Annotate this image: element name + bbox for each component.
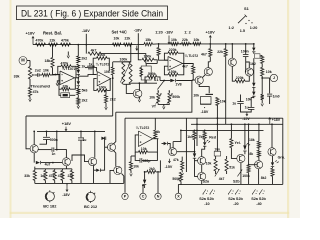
- wire cap to bottom: [80, 140, 82, 183]
- wire Q16 to right: [177, 151, 195, 153]
- wire: [160, 80, 164, 82]
- diode D7: [36, 161, 40, 164]
- wire third rail: [181, 129, 264, 131]
- diode D8: [96, 169, 100, 172]
- ground S1: [163, 107, 166, 109]
- svg-text:1:20: 1:20: [250, 26, 258, 30]
- svg-text:-18V: -18V: [165, 30, 174, 35]
- trimmer box: [61, 93, 70, 98]
- svg-text:2k2: 2k2: [81, 57, 87, 61]
- svg-text:S1: S1: [244, 6, 250, 11]
- wire to 100k: [138, 44, 141, 60]
- ground: [105, 103, 107, 107]
- trimmer 100k pair: [130, 45, 132, 62]
- wire box top / upper rail: [125, 117, 283, 119]
- svg-text:500k: 500k: [172, 95, 180, 99]
- wire rail A extension: [78, 44, 137, 46]
- svg-text:10k: 10k: [104, 70, 110, 74]
- svg-text:4u7: 4u7: [45, 163, 51, 167]
- svg-text:1m0: 1m0: [273, 95, 280, 99]
- transistor Q6: [30, 145, 38, 153]
- svg-text:1.5: 1.5: [240, 29, 245, 33]
- svg-text:2u2: 2u2: [35, 69, 41, 73]
- svg-text:-18V: -18V: [62, 193, 70, 197]
- wire Q6 collector to rail: [33, 131, 35, 144]
- node: [130, 44, 132, 46]
- wire Q3-base virtual earth bus: [116, 81, 192, 113]
- svg-text:10k: 10k: [43, 69, 49, 73]
- ground at op-amp1 +input: [57, 81, 60, 83]
- svg-text:-15V: -15V: [242, 117, 250, 121]
- resistor 4k7 collector load: [209, 44, 211, 49]
- svg-text:1:20: 1:20: [155, 30, 163, 34]
- svg-text:10k: 10k: [193, 94, 199, 98]
- diode at Q16 base: [162, 143, 164, 145]
- resistor above Yel: [230, 124, 232, 138]
- wire rail A: [33, 44, 79, 46]
- svg-text:4k7: 4k7: [91, 48, 97, 52]
- diode D9: [144, 172, 146, 180]
- svg-text:N: N: [157, 195, 160, 199]
- svg-text:M: M: [21, 58, 25, 63]
- wire Q8 base: [72, 155, 89, 162]
- svg-text:S2a S2b: S2a S2b: [251, 197, 266, 201]
- svg-text:18k: 18k: [249, 138, 255, 142]
- wire to FET gate: [126, 84, 133, 93]
- wire: [52, 45, 54, 58]
- svg-text:Threshold: Threshold: [31, 84, 51, 89]
- svg-text:10k: 10k: [149, 96, 155, 100]
- svg-text:+18V: +18V: [26, 31, 36, 36]
- transistor Q9: [107, 143, 115, 151]
- svg-text:100n: 100n: [241, 50, 249, 54]
- transistor Q14: [255, 161, 263, 169]
- title box: [17, 6, 168, 20]
- svg-text:Rest. Bal.: Rest. Bal.: [43, 31, 62, 36]
- ground chain: [77, 104, 79, 106]
- wire +18V rail mid: [37, 130, 105, 132]
- svg-text:DL 231 ( Fig. 6 ) Expander: DL 231 ( Fig. 6 ) Expander Side Chain: [21, 8, 163, 19]
- svg-text:1u: 1u: [83, 138, 87, 142]
- svg-text:S2b: S2b: [233, 180, 240, 184]
- svg-text:100k: 100k: [99, 85, 107, 89]
- wire rail B: [157, 43, 254, 45]
- svg-text:10k: 10k: [220, 100, 226, 104]
- svg-text:C: C: [142, 195, 145, 199]
- capacitor 500n: [46, 131, 48, 136]
- diode 1V8: [164, 80, 170, 82]
- svg-text:¼ TL072: ¼ TL072: [136, 126, 150, 130]
- svg-text:-18V: -18V: [82, 29, 90, 33]
- capacitor 1n: [51, 147, 53, 151]
- svg-text:-18V: -18V: [201, 110, 209, 114]
- svg-text:Set +4C: Set +4C: [112, 29, 127, 34]
- svg-text:1k5: 1k5: [187, 135, 193, 139]
- wire op output: [153, 138, 159, 140]
- svg-text:22k: 22k: [125, 37, 131, 41]
- wire Q8 collector to rail: [94, 131, 96, 157]
- wire 1k5 to base: [194, 140, 196, 154]
- diode chain column: [77, 45, 79, 56]
- switch S1 lever: [157, 81, 164, 90]
- wire caps bottom: [241, 104, 252, 112]
- svg-text:470k: 470k: [61, 39, 69, 43]
- svg-text:1n: 1n: [52, 152, 56, 156]
- FET Q1 gain control: [133, 89, 142, 98]
- svg-text:51k: 51k: [229, 165, 235, 169]
- capacitor 680p: [139, 158, 141, 163]
- wire Q14 base from 100k: [248, 164, 250, 166]
- svg-text:Grn.: Grn.: [278, 156, 285, 160]
- resistor 2k2 lower: [77, 95, 79, 98]
- svg-text:Red: Red: [209, 135, 216, 139]
- wire Q7 emitter: [65, 166, 67, 169]
- transistor Q7: [62, 158, 70, 166]
- svg-text:1: 2: 1: 2: [184, 30, 191, 34]
- svg-text:4k7: 4k7: [182, 65, 188, 69]
- svg-text:33k: 33k: [14, 74, 20, 78]
- resistor to ground under J: [261, 78, 263, 94]
- wire box left edge: [124, 118, 126, 193]
- svg-text:220k: 220k: [169, 48, 177, 52]
- transistor Q15: [268, 148, 276, 156]
- capacitor 1m0: [253, 96, 255, 98]
- wire: [27, 60, 30, 62]
- svg-text:8k: 8k: [249, 152, 253, 156]
- svg-text:8k2: 8k2: [261, 176, 267, 180]
- resistor 2k2 to ground: [104, 90, 107, 94]
- small box: [255, 54, 260, 58]
- svg-text:47k: 47k: [33, 90, 39, 94]
- svg-text:BC 182: BC 182: [43, 203, 57, 208]
- svg-text:10k: 10k: [266, 70, 272, 74]
- svg-text:22k: 22k: [217, 50, 223, 54]
- wire Q2 collector: [208, 62, 210, 68]
- svg-text:1u: 1u: [232, 101, 236, 105]
- power -18V arrow into rail: [136, 46, 138, 51]
- svg-text:5k6: 5k6: [82, 89, 88, 93]
- svg-text:150k: 150k: [169, 70, 177, 74]
- wire verticals: [185, 118, 187, 172]
- svg-text:22k: 22k: [50, 39, 56, 43]
- wire diode to Q7 base: [41, 162, 63, 164]
- svg-text:-10: -10: [204, 202, 209, 206]
- svg-text:S2a S2b: S2a S2b: [228, 197, 243, 201]
- transistor Q5: [245, 68, 253, 76]
- svg-text:+18V: +18V: [206, 29, 216, 34]
- svg-text:10k: 10k: [246, 98, 252, 102]
- wire 180.9 down to Q16 collector: [173, 130, 181, 141]
- wire Q2-Q3: [202, 74, 205, 77]
- svg-text:18k: 18k: [45, 59, 51, 63]
- svg-text:J: J: [273, 75, 275, 80]
- svg-text:+18V: +18V: [62, 121, 72, 126]
- connector M: [19, 57, 27, 65]
- wire Q6 emitter: [33, 153, 35, 163]
- connector X: [177, 184, 179, 193]
- wires Q9/Q10 connections: [100, 137, 104, 170]
- svg-text:1k2: 1k2: [250, 62, 256, 66]
- wire to J: [261, 76, 263, 78]
- resistor leg under rail B: [158, 44, 160, 48]
- svg-text:47k: 47k: [173, 158, 179, 162]
- svg-text:10k: 10k: [133, 165, 139, 169]
- wire Q16 collector up: [172, 142, 174, 148]
- transistor pinout BC212: [86, 192, 95, 201]
- svg-text:-20: -20: [233, 202, 238, 206]
- connector C: [142, 186, 144, 193]
- wire 1n to Q7 collector: [55, 150, 67, 158]
- wire op-amp2 output: [183, 64, 194, 66]
- svg-text:S2a: S2a: [203, 180, 210, 184]
- diode D5: [253, 58, 255, 83]
- node S1: [163, 80, 165, 82]
- svg-text:Yel.: Yel.: [235, 141, 241, 145]
- wire FET drain: [138, 83, 140, 90]
- svg-text:15k: 15k: [145, 38, 151, 42]
- connector J: [270, 74, 277, 81]
- svg-text:1:2: 1:2: [229, 26, 234, 30]
- transistor Q13: [237, 154, 245, 162]
- potentiometer 10k leg: [157, 91, 159, 93]
- switch contact group 1: [203, 189, 206, 193]
- wire Q3 emitter to cap: [199, 84, 209, 93]
- svg-text:+18V: +18V: [272, 118, 281, 122]
- svg-text:-15V: -15V: [165, 165, 173, 169]
- svg-text:33k: 33k: [63, 84, 69, 88]
- capacitor 1u mid: [80, 131, 82, 137]
- svg-text:500k: 500k: [148, 72, 156, 76]
- switch S2b lever: [237, 170, 242, 177]
- power -15V: [168, 159, 170, 163]
- svg-text:22k: 22k: [182, 38, 188, 42]
- wire drain rail to S1: [131, 82, 158, 84]
- box component: [141, 66, 151, 80]
- transistor Q11: [198, 157, 206, 165]
- svg-text:33k: 33k: [24, 174, 30, 178]
- svg-text:4k7: 4k7: [201, 52, 207, 56]
- transistor Q8: [89, 158, 97, 166]
- power -18V bottom: [66, 186, 68, 192]
- node chain-output: [77, 77, 79, 79]
- wire legs join: [158, 103, 169, 104]
- transistor Q16: [169, 148, 177, 156]
- wire left drop: [25, 116, 27, 149]
- resistor 4k7 branch: [85, 45, 87, 54]
- wire right bus: [282, 118, 284, 184]
- svg-text:2k2: 2k2: [82, 98, 88, 102]
- node rest-bal wiper: [52, 44, 54, 46]
- wire to op-amp2: [75, 77, 79, 79]
- resistor 47k: [29, 79, 31, 88]
- capacitor 10n box: [214, 151, 220, 156]
- connector P: [122, 193, 128, 199]
- svg-text:-18V: -18V: [134, 29, 142, 33]
- svg-text:10k: 10k: [114, 37, 120, 41]
- ground stub: [67, 52, 69, 56]
- transistor Q4: [228, 58, 236, 66]
- svg-text:BC 212: BC 212: [84, 204, 98, 209]
- transistor pinout BC182: [45, 192, 54, 201]
- wire Q15 collector: [271, 124, 273, 148]
- potentiometer 500k leg: [168, 91, 170, 93]
- wire vertical 197: [196, 118, 198, 146]
- switch S2a lever: [215, 169, 220, 176]
- svg-text:10k: 10k: [194, 38, 200, 42]
- connector N: [157, 185, 159, 193]
- diode at 104.6: [101, 137, 105, 140]
- wire rail stub: [56, 131, 58, 149]
- transistor Q12: [198, 172, 206, 180]
- svg-text:10k: 10k: [171, 38, 177, 42]
- wire: [50, 74, 60, 76]
- power -15V mid: [246, 112, 248, 116]
- svg-text:S2a S2b: S2a S2b: [199, 197, 214, 201]
- svg-text:100k: 100k: [120, 57, 128, 61]
- wire right rail lower: [191, 123, 283, 125]
- diode D10: [193, 153, 196, 157]
- diode top right: [253, 44, 255, 48]
- svg-text:1k: 1k: [81, 64, 85, 68]
- wire row top rail: [35, 168, 72, 170]
- wire diode to base: [176, 79, 195, 82]
- svg-text:100k: 100k: [144, 55, 152, 59]
- svg-text:¼ TL072: ¼ TL072: [185, 54, 199, 58]
- diode D2: [77, 78, 79, 81]
- wire Q5 collector: [246, 62, 250, 68]
- wire to bottom rail: [93, 170, 95, 183]
- wire bottom right rail: [197, 183, 282, 185]
- transistor Q10: [114, 166, 122, 174]
- wire Q6 to 1n cap: [38, 149, 52, 151]
- wire row bottom rail: [35, 182, 124, 184]
- svg-text:470k: 470k: [36, 39, 44, 43]
- wire output node down to bus: [112, 75, 114, 116]
- wire 500n to Q6 area: [40, 140, 47, 145]
- switch contact group 2: [229, 189, 232, 193]
- diode D1: [77, 69, 79, 70]
- wire box to drain wire: [145, 80, 147, 83]
- resistor 5k6: [77, 86, 79, 89]
- svg-text:¼ TL072: ¼ TL072: [96, 63, 110, 67]
- switch contact group 3: [253, 189, 256, 193]
- ground threshold: [29, 97, 31, 100]
- svg-text:10k: 10k: [206, 162, 212, 166]
- wire long rail: [26, 115, 113, 117]
- svg-text:1V8: 1V8: [175, 83, 181, 87]
- diode D6: [253, 87, 255, 91]
- transistor Q3: [195, 76, 203, 84]
- svg-text:220k: 220k: [236, 76, 244, 80]
- svg-text:-40: -40: [256, 202, 261, 206]
- ground FET source: [138, 97, 140, 100]
- transistor Q2: [204, 68, 212, 76]
- wire: [53, 68, 61, 75]
- svg-text:4k7: 4k7: [219, 177, 225, 181]
- resistor 22k right: [225, 43, 227, 45]
